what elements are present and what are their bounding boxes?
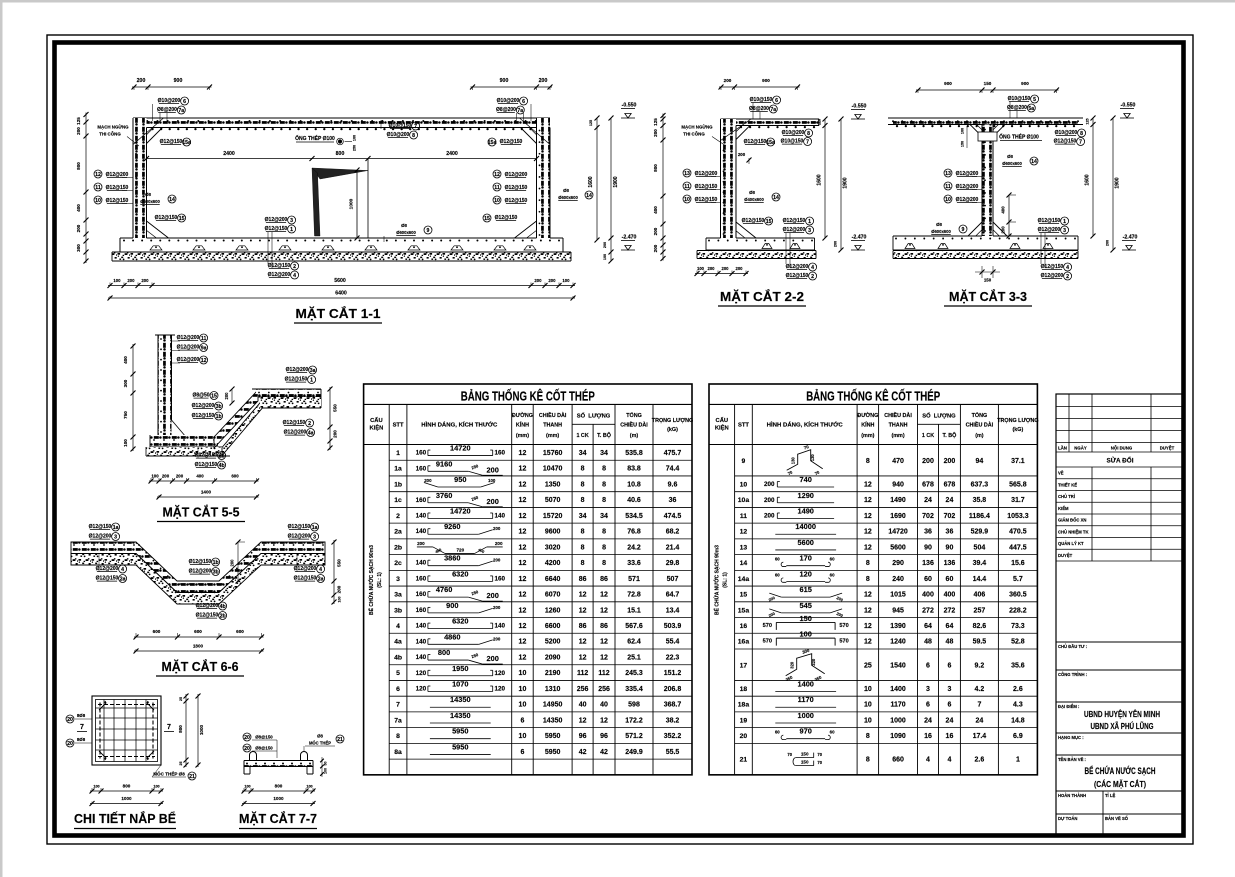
svg-text:447.5: 447.5 [1009,544,1027,551]
svg-text:2400: 2400 [223,151,235,157]
svg-text:72.8: 72.8 [627,592,641,599]
svg-text:1950: 1950 [452,664,468,673]
svg-text:206.8: 206.8 [664,686,682,693]
svg-text:25: 25 [179,762,183,766]
svg-text:6320: 6320 [452,617,468,626]
svg-text:-2.470: -2.470 [622,235,637,241]
svg-text:1b: 1b [213,560,219,566]
svg-text:15.1: 15.1 [627,607,641,614]
svg-text:70: 70 [817,752,822,757]
svg-text:48: 48 [924,639,932,646]
svg-text:DỰ TOÁN: DỰ TOÁN [1058,816,1077,821]
svg-text:5600: 5600 [334,278,346,284]
svg-text:7: 7 [167,724,171,731]
svg-text:60: 60 [775,730,780,735]
svg-text:6: 6 [520,749,524,756]
svg-text:6: 6 [947,702,951,709]
svg-text:HÌNH DÁNG, KÍCH THƯỚC: HÌNH DÁNG, KÍCH THƯỚC [767,421,844,429]
svg-text:TỔNG: TỔNG [972,412,988,419]
svg-text:272: 272 [944,607,956,614]
svg-text:1290: 1290 [797,491,813,500]
svg-text:37.1: 37.1 [1011,458,1025,465]
svg-text:CHIỀU DÀI: CHIỀU DÀI [620,422,648,429]
svg-text:720: 720 [456,547,464,552]
svg-text:Ø10@150: Ø10@150 [781,139,804,145]
svg-text:Ø12@200: Ø12@200 [956,184,979,190]
svg-text:1400: 1400 [201,490,212,495]
svg-text:1: 1 [290,227,293,233]
svg-text:7: 7 [806,139,809,145]
svg-text:7a: 7a [178,108,184,114]
svg-text:HOÀN THÀNH: HOÀN THÀNH [1058,793,1086,798]
svg-text:12: 12 [519,639,527,646]
svg-text:31.7: 31.7 [1011,497,1025,504]
svg-text:10: 10 [95,198,101,204]
svg-text:406: 406 [974,592,986,599]
svg-text:Ø12@150: Ø12@150 [294,576,317,582]
svg-text:160: 160 [416,450,427,457]
svg-text:(SL: 1): (SL: 1) [722,572,728,588]
svg-text:14: 14 [740,560,748,567]
svg-text:STT: STT [393,423,404,429]
svg-text:Ø12@150: Ø12@150 [500,139,523,145]
svg-text:3760: 3760 [436,491,452,500]
svg-text:1170: 1170 [890,702,905,709]
svg-text:12: 12 [95,172,101,178]
svg-text:15: 15 [179,216,185,222]
svg-text:Ø8@50: Ø8@50 [192,393,209,399]
svg-text:4: 4 [293,273,296,279]
svg-text:130: 130 [791,457,796,465]
svg-text:15: 15 [211,393,217,399]
svg-text:8: 8 [807,131,810,137]
svg-text:900: 900 [500,78,509,84]
svg-text:150: 150 [961,141,965,147]
svg-text:12: 12 [864,623,872,630]
svg-text:200: 200 [736,266,744,271]
svg-text:14350: 14350 [450,711,471,720]
svg-text:1090: 1090 [890,733,906,740]
svg-text:Ø12@150: Ø12@150 [505,198,528,204]
svg-text:100: 100 [603,254,607,260]
svg-text:12: 12 [519,623,527,630]
svg-text:3b: 3b [216,404,222,410]
svg-text:200: 200 [224,392,229,400]
svg-text:14350: 14350 [450,695,471,704]
svg-text:52.8: 52.8 [1011,639,1025,646]
svg-text:2b: 2b [394,544,402,551]
svg-text:1490: 1490 [890,497,906,504]
svg-text:(mm): (mm) [861,433,874,439]
svg-text:565.8: 565.8 [1009,481,1027,488]
svg-text:200: 200 [333,430,338,438]
svg-text:2b: 2b [220,613,226,619]
svg-text:86: 86 [600,576,608,583]
svg-text:14720: 14720 [888,529,908,536]
svg-text:160: 160 [416,465,427,472]
svg-text:25: 25 [864,662,872,669]
svg-text:SỐ LƯỢNG: SỐ LƯỢNG [922,413,956,420]
svg-text:STT: STT [738,423,749,429]
svg-text:1490: 1490 [797,506,813,515]
svg-text:1390: 1390 [890,623,906,630]
svg-text:8: 8 [866,757,870,764]
svg-text:KIỆN: KIỆN [369,424,383,432]
svg-text:Ø12@150: Ø12@150 [196,613,219,619]
svg-text:3: 3 [290,218,293,224]
svg-text:200: 200 [487,654,499,663]
svg-text:6640: 6640 [545,576,561,583]
svg-text:200: 200 [127,278,135,283]
svg-text:Ø600x600: Ø600x600 [396,230,416,235]
svg-text:6: 6 [183,99,186,105]
svg-text:THI CÔNG: THI CÔNG [683,132,705,137]
svg-text:40.6: 40.6 [627,497,641,504]
svg-text:8a: 8a [394,749,402,756]
svg-text:12: 12 [600,639,608,646]
svg-text:800: 800 [178,725,183,733]
svg-text:1000: 1000 [121,796,132,801]
svg-text:GIÁM ĐỐC XN: GIÁM ĐỐC XN [1058,518,1086,523]
svg-text:Ø8@200: Ø8@200 [496,107,516,113]
svg-text:68.2: 68.2 [666,529,680,536]
svg-text:570: 570 [839,639,848,645]
svg-text:Ø8: Ø8 [749,190,755,195]
svg-text:228.2: 228.2 [1009,607,1027,614]
svg-text:4760: 4760 [436,585,452,594]
svg-text:42: 42 [579,749,587,756]
svg-text:200: 200 [944,458,956,465]
svg-text:1800: 1800 [193,644,204,649]
svg-text:48: 48 [946,639,954,646]
svg-text:10: 10 [519,733,527,740]
svg-text:112: 112 [598,670,609,677]
svg-text:200: 200 [487,591,499,600]
svg-text:12: 12 [864,544,872,551]
svg-text:120: 120 [416,686,427,693]
svg-text:120: 120 [800,569,812,578]
svg-text:24: 24 [924,497,932,504]
svg-text:Ø12@150: Ø12@150 [786,273,809,279]
svg-text:Ø12@200: Ø12@200 [177,345,200,351]
svg-text:THI CÔNG: THI CÔNG [99,132,121,137]
svg-text:3: 3 [1063,228,1066,234]
svg-text:12: 12 [579,717,587,724]
svg-text:4a: 4a [308,430,314,436]
svg-text:1 CK: 1 CK [576,433,588,439]
svg-text:16: 16 [924,733,932,740]
svg-text:1900: 1900 [843,177,849,188]
svg-text:1400: 1400 [797,680,813,689]
svg-text:200: 200 [495,541,503,546]
svg-text:9: 9 [427,228,430,234]
svg-text:14720: 14720 [450,506,471,515]
svg-text:170: 170 [800,554,812,563]
svg-text:2.6: 2.6 [975,757,985,764]
svg-text:11: 11 [684,184,690,190]
svg-text:12: 12 [519,466,527,473]
svg-text:21: 21 [740,757,748,764]
svg-text:1: 1 [1016,757,1020,764]
svg-text:2c: 2c [394,560,402,567]
svg-text:10: 10 [864,717,872,724]
svg-text:Ø600x600: Ø600x600 [140,199,160,204]
svg-text:12: 12 [519,481,527,488]
svg-text:7: 7 [396,702,400,709]
svg-text:86: 86 [579,576,587,583]
svg-text:335.4: 335.4 [625,686,643,693]
svg-text:2090: 2090 [545,654,561,661]
svg-text:96: 96 [600,733,608,740]
svg-text:1260: 1260 [545,607,561,614]
svg-text:82.6: 82.6 [973,623,987,630]
svg-text:14350: 14350 [543,717,563,724]
svg-text:200: 200 [337,585,342,593]
svg-text:120: 120 [416,670,427,677]
svg-text:24: 24 [946,717,954,724]
svg-text:1310: 1310 [545,686,561,693]
svg-text:Ø10@200: Ø10@200 [1055,130,1078,136]
svg-text:702: 702 [922,513,934,520]
svg-text:13: 13 [740,544,748,551]
svg-text:1690: 1690 [890,513,906,520]
svg-text:MÓC THÉP: MÓC THÉP [309,741,331,746]
svg-text:6: 6 [926,702,930,709]
svg-text:THIẾT KẾ: THIẾT KẾ [1058,482,1077,487]
svg-text:6400: 6400 [335,291,347,297]
svg-text:12: 12 [600,717,608,724]
svg-text:64: 64 [924,623,932,630]
svg-text:4: 4 [1066,265,1069,271]
svg-text:9.2: 9.2 [975,662,985,669]
svg-text:8: 8 [581,466,585,473]
svg-text:2a: 2a [120,576,126,582]
svg-text:10: 10 [864,686,872,693]
svg-text:200: 200 [539,78,548,84]
svg-text:Ø600x600: Ø600x600 [931,229,951,234]
svg-text:5950: 5950 [545,749,561,756]
svg-text:34: 34 [600,450,608,457]
svg-text:8: 8 [581,544,585,551]
svg-text:256: 256 [598,686,610,693]
svg-text:TRỌNG LƯỢNG: TRỌNG LƯỢNG [652,418,693,424]
svg-text:200: 200 [76,224,81,232]
svg-text:BẢN VẼ SỐ: BẢN VẼ SỐ [1105,816,1129,821]
svg-text:10: 10 [945,197,951,203]
svg-text:5: 5 [1033,97,1036,103]
svg-text:4b: 4b [220,604,226,610]
svg-text:MÓC THÉP Ø8: MÓC THÉP Ø8 [153,770,185,777]
svg-text:150: 150 [801,760,809,765]
svg-text:3: 3 [808,228,811,234]
svg-text:10a: 10a [738,497,750,504]
svg-text:200: 200 [141,278,149,283]
svg-text:900: 900 [446,601,458,610]
svg-text:100: 100 [244,785,250,789]
svg-text:950: 950 [454,475,466,484]
svg-text:900: 900 [1021,81,1029,86]
svg-text:15760: 15760 [543,450,563,457]
svg-text:150: 150 [800,614,812,623]
svg-text:Ø12@200: Ø12@200 [286,367,309,373]
svg-text:1000: 1000 [199,724,204,735]
svg-text:MẠCH NGỪNG: MẠCH NGỪNG [681,125,713,130]
svg-text:750: 750 [123,411,128,419]
svg-text:HẠNG MỤC :: HẠNG MỤC : [1058,735,1084,740]
svg-text:4.2: 4.2 [975,686,985,693]
svg-text:2a: 2a [318,576,324,582]
svg-text:(mm): (mm) [516,433,529,439]
svg-text:100: 100 [961,128,965,134]
svg-text:475.7: 475.7 [664,450,682,457]
svg-text:125: 125 [76,117,81,125]
svg-text:Ø12@200: Ø12@200 [106,172,129,178]
svg-text:1: 1 [808,219,811,225]
svg-text:CẤU: CẤU [370,417,383,424]
svg-text:-0.550: -0.550 [622,103,637,109]
svg-text:368.7: 368.7 [664,702,682,709]
svg-text:15a: 15a [766,140,775,146]
svg-text:1: 1 [1063,219,1066,225]
svg-text:8: 8 [866,576,870,583]
svg-text:945: 945 [892,607,904,614]
svg-text:25.1: 25.1 [627,654,641,661]
svg-text:64: 64 [946,623,954,630]
svg-text:200: 200 [548,278,556,283]
svg-text:6: 6 [926,662,930,669]
svg-text:112: 112 [577,670,588,677]
svg-text:83.8: 83.8 [627,466,641,473]
svg-text:12: 12 [600,654,608,661]
svg-text:570: 570 [763,639,772,645]
svg-text:120: 120 [494,686,505,693]
svg-text:550: 550 [333,404,338,412]
svg-text:400: 400 [196,474,204,479]
svg-text:3020: 3020 [545,544,561,551]
svg-text:21: 21 [189,774,195,780]
svg-text:Ø8@200: Ø8@200 [749,106,769,112]
svg-text:200: 200 [176,474,184,479]
svg-text:14000: 14000 [795,522,816,531]
svg-text:Ø12@200: Ø12@200 [695,171,718,177]
svg-text:42: 42 [600,749,608,756]
svg-text:8: 8 [602,560,606,567]
svg-text:1a: 1a [113,525,119,531]
svg-text:1240: 1240 [890,639,906,646]
svg-text:NGÀY: NGÀY [1074,446,1087,451]
svg-text:150: 150 [801,752,809,757]
svg-text:Ø12@150: Ø12@150 [744,139,767,145]
svg-text:800: 800 [653,164,658,172]
svg-text:504: 504 [974,544,986,551]
svg-text:1000: 1000 [797,711,813,720]
svg-text:Ø12@200: Ø12@200 [1038,227,1061,233]
svg-text:20: 20 [740,733,748,740]
svg-text:3: 3 [947,686,951,693]
svg-text:14720: 14720 [450,444,471,453]
svg-text:12: 12 [201,358,207,364]
svg-text:13.4: 13.4 [666,607,680,614]
svg-text:16: 16 [946,733,954,740]
svg-text:9: 9 [742,458,746,465]
svg-text:15: 15 [740,592,748,599]
svg-text:100: 100 [338,597,342,603]
svg-text:200: 200 [1106,240,1110,246]
svg-text:Ø12@200: Ø12@200 [284,430,307,436]
svg-text:100: 100 [153,785,159,789]
svg-text:35.8: 35.8 [973,497,987,504]
svg-text:7: 7 [1079,139,1082,145]
svg-text:5200: 5200 [545,639,561,646]
svg-text:12: 12 [864,607,872,614]
svg-text:6070: 6070 [545,592,561,599]
svg-text:702: 702 [944,513,956,520]
svg-text:70: 70 [817,760,822,765]
svg-text:10: 10 [684,197,690,203]
svg-text:5.7: 5.7 [1013,576,1023,583]
svg-text:567.6: 567.6 [625,623,643,630]
svg-text:4: 4 [319,567,322,573]
svg-text:13: 13 [684,171,690,177]
svg-text:Ø12@200: Ø12@200 [177,357,200,363]
svg-text:CHỦ NHIỆM TK: CHỦ NHIỆM TK [1058,529,1088,534]
svg-text:(kG): (kG) [1013,427,1024,433]
svg-text:20: 20 [67,741,73,747]
svg-text:200: 200 [424,478,432,483]
svg-text:8: 8 [1080,131,1083,137]
svg-text:1350: 1350 [545,481,561,488]
svg-text:200: 200 [764,481,775,488]
svg-text:NỘI DUNG: NỘI DUNG [1111,446,1133,451]
svg-text:1a: 1a [394,466,402,473]
svg-text:36: 36 [946,529,954,536]
svg-text:Ø8@150: Ø8@150 [255,746,273,751]
svg-text:400: 400 [922,592,934,599]
svg-text:272: 272 [922,607,934,614]
svg-text:MẶT CẮT 2-2: MẶT CẮT 2-2 [720,289,804,304]
svg-text:Ø8: Ø8 [317,734,323,739]
svg-text:8: 8 [581,481,585,488]
svg-text:Ø12@200: Ø12@200 [177,335,200,341]
svg-text:200: 200 [708,266,716,271]
svg-text:7a: 7a [394,717,402,724]
svg-text:40: 40 [600,702,608,709]
svg-text:Ø12@200: Ø12@200 [956,171,979,177]
svg-text:25: 25 [179,697,183,701]
svg-text:KÍNH: KÍNH [861,421,874,429]
svg-text:2: 2 [293,264,296,270]
svg-text:136: 136 [922,560,934,567]
svg-text:12: 12 [519,576,527,583]
svg-text:160: 160 [416,497,427,504]
svg-text:320: 320 [790,661,795,669]
svg-text:12: 12 [740,529,748,536]
svg-text:BỂ CHỨA NƯỚC SẠCH 90m3: BỂ CHỨA NƯỚC SẠCH 90m3 [712,545,720,615]
svg-text:34: 34 [579,513,587,520]
svg-text:Ø12@150: Ø12@150 [288,524,311,530]
svg-text:100: 100 [113,278,121,283]
svg-text:8: 8 [866,560,870,567]
svg-text:3a: 3a [394,592,402,599]
svg-text:Ø12@200: Ø12@200 [89,534,112,540]
svg-text:5950: 5950 [452,742,468,751]
svg-text:12: 12 [864,513,872,520]
svg-text:CHI TIẾT NẮP BỂ: CHI TIẾT NẮP BỂ [74,811,176,826]
svg-text:Ø12@200: Ø12@200 [786,264,809,270]
svg-text:8: 8 [602,466,606,473]
svg-text:7: 7 [80,724,84,731]
svg-text:800: 800 [438,648,450,657]
